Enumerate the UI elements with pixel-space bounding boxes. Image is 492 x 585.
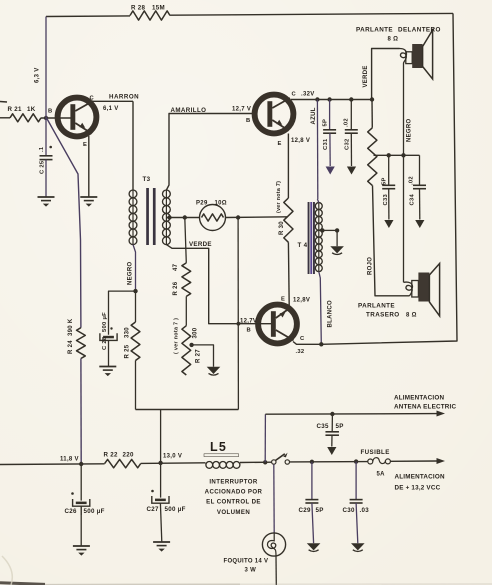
svg-text:C: C — [90, 96, 95, 102]
svg-text:C: C — [300, 336, 305, 342]
svg-text:DELANTERO: DELANTERO — [398, 27, 441, 34]
svg-text:330: 330 — [125, 327, 131, 338]
svg-text:ANTENA ELECTRIC: ANTENA ELECTRIC — [394, 404, 456, 411]
svg-text:6,1 V: 6,1 V — [103, 106, 119, 112]
svg-text:R 21: R 21 — [8, 106, 23, 113]
svg-text:.32V: .32V — [301, 92, 315, 98]
svg-text:NEGRO: NEGRO — [128, 261, 134, 285]
svg-text:11,8 V: 11,8 V — [60, 457, 79, 463]
svg-text:C34: C34 — [410, 193, 416, 205]
svg-text:( ver nota 7 ): ( ver nota 7 ) — [174, 318, 180, 354]
svg-text:10Ω: 10Ω — [215, 201, 227, 207]
svg-text:R 30: R 30 — [279, 221, 285, 235]
svg-text:.1: .1 — [39, 146, 45, 152]
svg-text:C27: C27 — [147, 506, 160, 513]
svg-text:R 24: R 24 — [68, 340, 74, 354]
svg-text:E: E — [278, 141, 282, 147]
svg-text:C26: C26 — [65, 508, 78, 515]
svg-text:AMARILLO: AMARILLO — [171, 107, 207, 114]
svg-text:.03: .03 — [360, 507, 370, 514]
svg-text:5P: 5P — [382, 177, 388, 185]
svg-text:ACCIONADO POR: ACCIONADO POR — [205, 489, 263, 496]
svg-text:ALIMENTACION: ALIMENTACION — [394, 395, 444, 402]
svg-text:8 Ω: 8 Ω — [388, 37, 399, 43]
svg-text:C32: C32 — [345, 138, 351, 150]
svg-text:R 22: R 22 — [104, 452, 119, 459]
svg-text:R 25: R 25 — [125, 344, 131, 358]
svg-text:C: C — [292, 92, 297, 98]
svg-text:P29: P29 — [196, 201, 208, 207]
svg-text:390 K: 390 K — [68, 318, 74, 336]
svg-text:13,0 V: 13,0 V — [163, 454, 182, 460]
svg-text:R 26: R 26 — [173, 281, 179, 295]
svg-text:12,7V: 12,7V — [240, 319, 257, 325]
svg-text:300: 300 — [193, 327, 199, 338]
svg-text:C33: C33 — [383, 193, 389, 205]
svg-text:15M: 15M — [152, 5, 165, 12]
svg-text:L5: L5 — [210, 440, 227, 454]
svg-text:NEGRO: NEGRO — [407, 118, 413, 142]
svg-text:1K: 1K — [27, 106, 36, 113]
svg-text:ALIMENTACION: ALIMENTACION — [395, 474, 445, 481]
svg-text:HARRON: HARRON — [109, 94, 139, 101]
svg-text:220: 220 — [123, 452, 134, 459]
svg-text:PARLANTE: PARLANTE — [358, 303, 395, 310]
svg-text:VERDE: VERDE — [189, 241, 212, 248]
svg-text:500 µF: 500 µF — [84, 508, 105, 515]
svg-text:C 28: C 28 — [102, 336, 108, 350]
svg-text:500 µF: 500 µF — [165, 506, 186, 513]
svg-text:EL CONTROL DE: EL CONTROL DE — [206, 499, 261, 506]
svg-text:ROJO: ROJO — [368, 257, 374, 275]
svg-text:C30: C30 — [343, 507, 356, 514]
svg-text:3 W: 3 W — [245, 568, 257, 574]
svg-text:E: E — [83, 142, 87, 148]
svg-text:C29: C29 — [299, 507, 312, 514]
svg-text:R 28: R 28 — [131, 5, 146, 12]
svg-text:5P: 5P — [323, 119, 329, 127]
svg-text:R 27: R 27 — [196, 349, 202, 363]
svg-text:5P: 5P — [336, 423, 344, 430]
svg-text:FUSIBLE: FUSIBLE — [361, 449, 390, 456]
svg-text:AZUL: AZUL — [311, 107, 317, 124]
svg-text:BLANCO: BLANCO — [328, 300, 334, 327]
svg-text:47: 47 — [173, 263, 179, 271]
svg-text:8 Ω: 8 Ω — [406, 313, 417, 319]
svg-text:12,7 V: 12,7 V — [232, 107, 251, 113]
svg-text:.02: .02 — [409, 176, 415, 185]
svg-text:VERDE: VERDE — [363, 65, 369, 87]
svg-text:5A: 5A — [377, 472, 386, 478]
svg-text:TRASERO: TRASERO — [366, 312, 400, 319]
svg-text:DE + 13,2 VCC: DE + 13,2 VCC — [395, 485, 441, 492]
svg-text:6,3 V: 6,3 V — [35, 67, 41, 83]
svg-text:E: E — [281, 297, 285, 303]
svg-text:.02: .02 — [344, 118, 350, 127]
svg-text:B: B — [48, 109, 53, 115]
svg-text:PARLANTE: PARLANTE — [356, 27, 393, 34]
svg-text:FOQUITO 14 V: FOQUITO 14 V — [224, 559, 269, 565]
svg-text:C35: C35 — [317, 423, 330, 430]
svg-text:C31: C31 — [323, 138, 329, 150]
svg-text:5P: 5P — [316, 507, 324, 514]
svg-text:B: B — [246, 118, 251, 124]
svg-text:B: B — [247, 327, 252, 333]
svg-text:T 4: T 4 — [298, 242, 308, 249]
svg-text:INTERRUPTOR: INTERRUPTOR — [209, 479, 257, 486]
svg-text:C 25: C 25 — [40, 160, 46, 174]
svg-text:500 µF: 500 µF — [102, 312, 108, 332]
svg-text:.32: .32 — [296, 349, 305, 355]
svg-text:T3: T3 — [143, 176, 151, 183]
svg-text:VOLUMEN: VOLUMEN — [217, 509, 250, 516]
svg-text:12,8 V: 12,8 V — [291, 138, 310, 144]
svg-text:12,8V: 12,8V — [293, 298, 310, 304]
svg-text:(ver nota 7): (ver nota 7) — [276, 181, 282, 213]
